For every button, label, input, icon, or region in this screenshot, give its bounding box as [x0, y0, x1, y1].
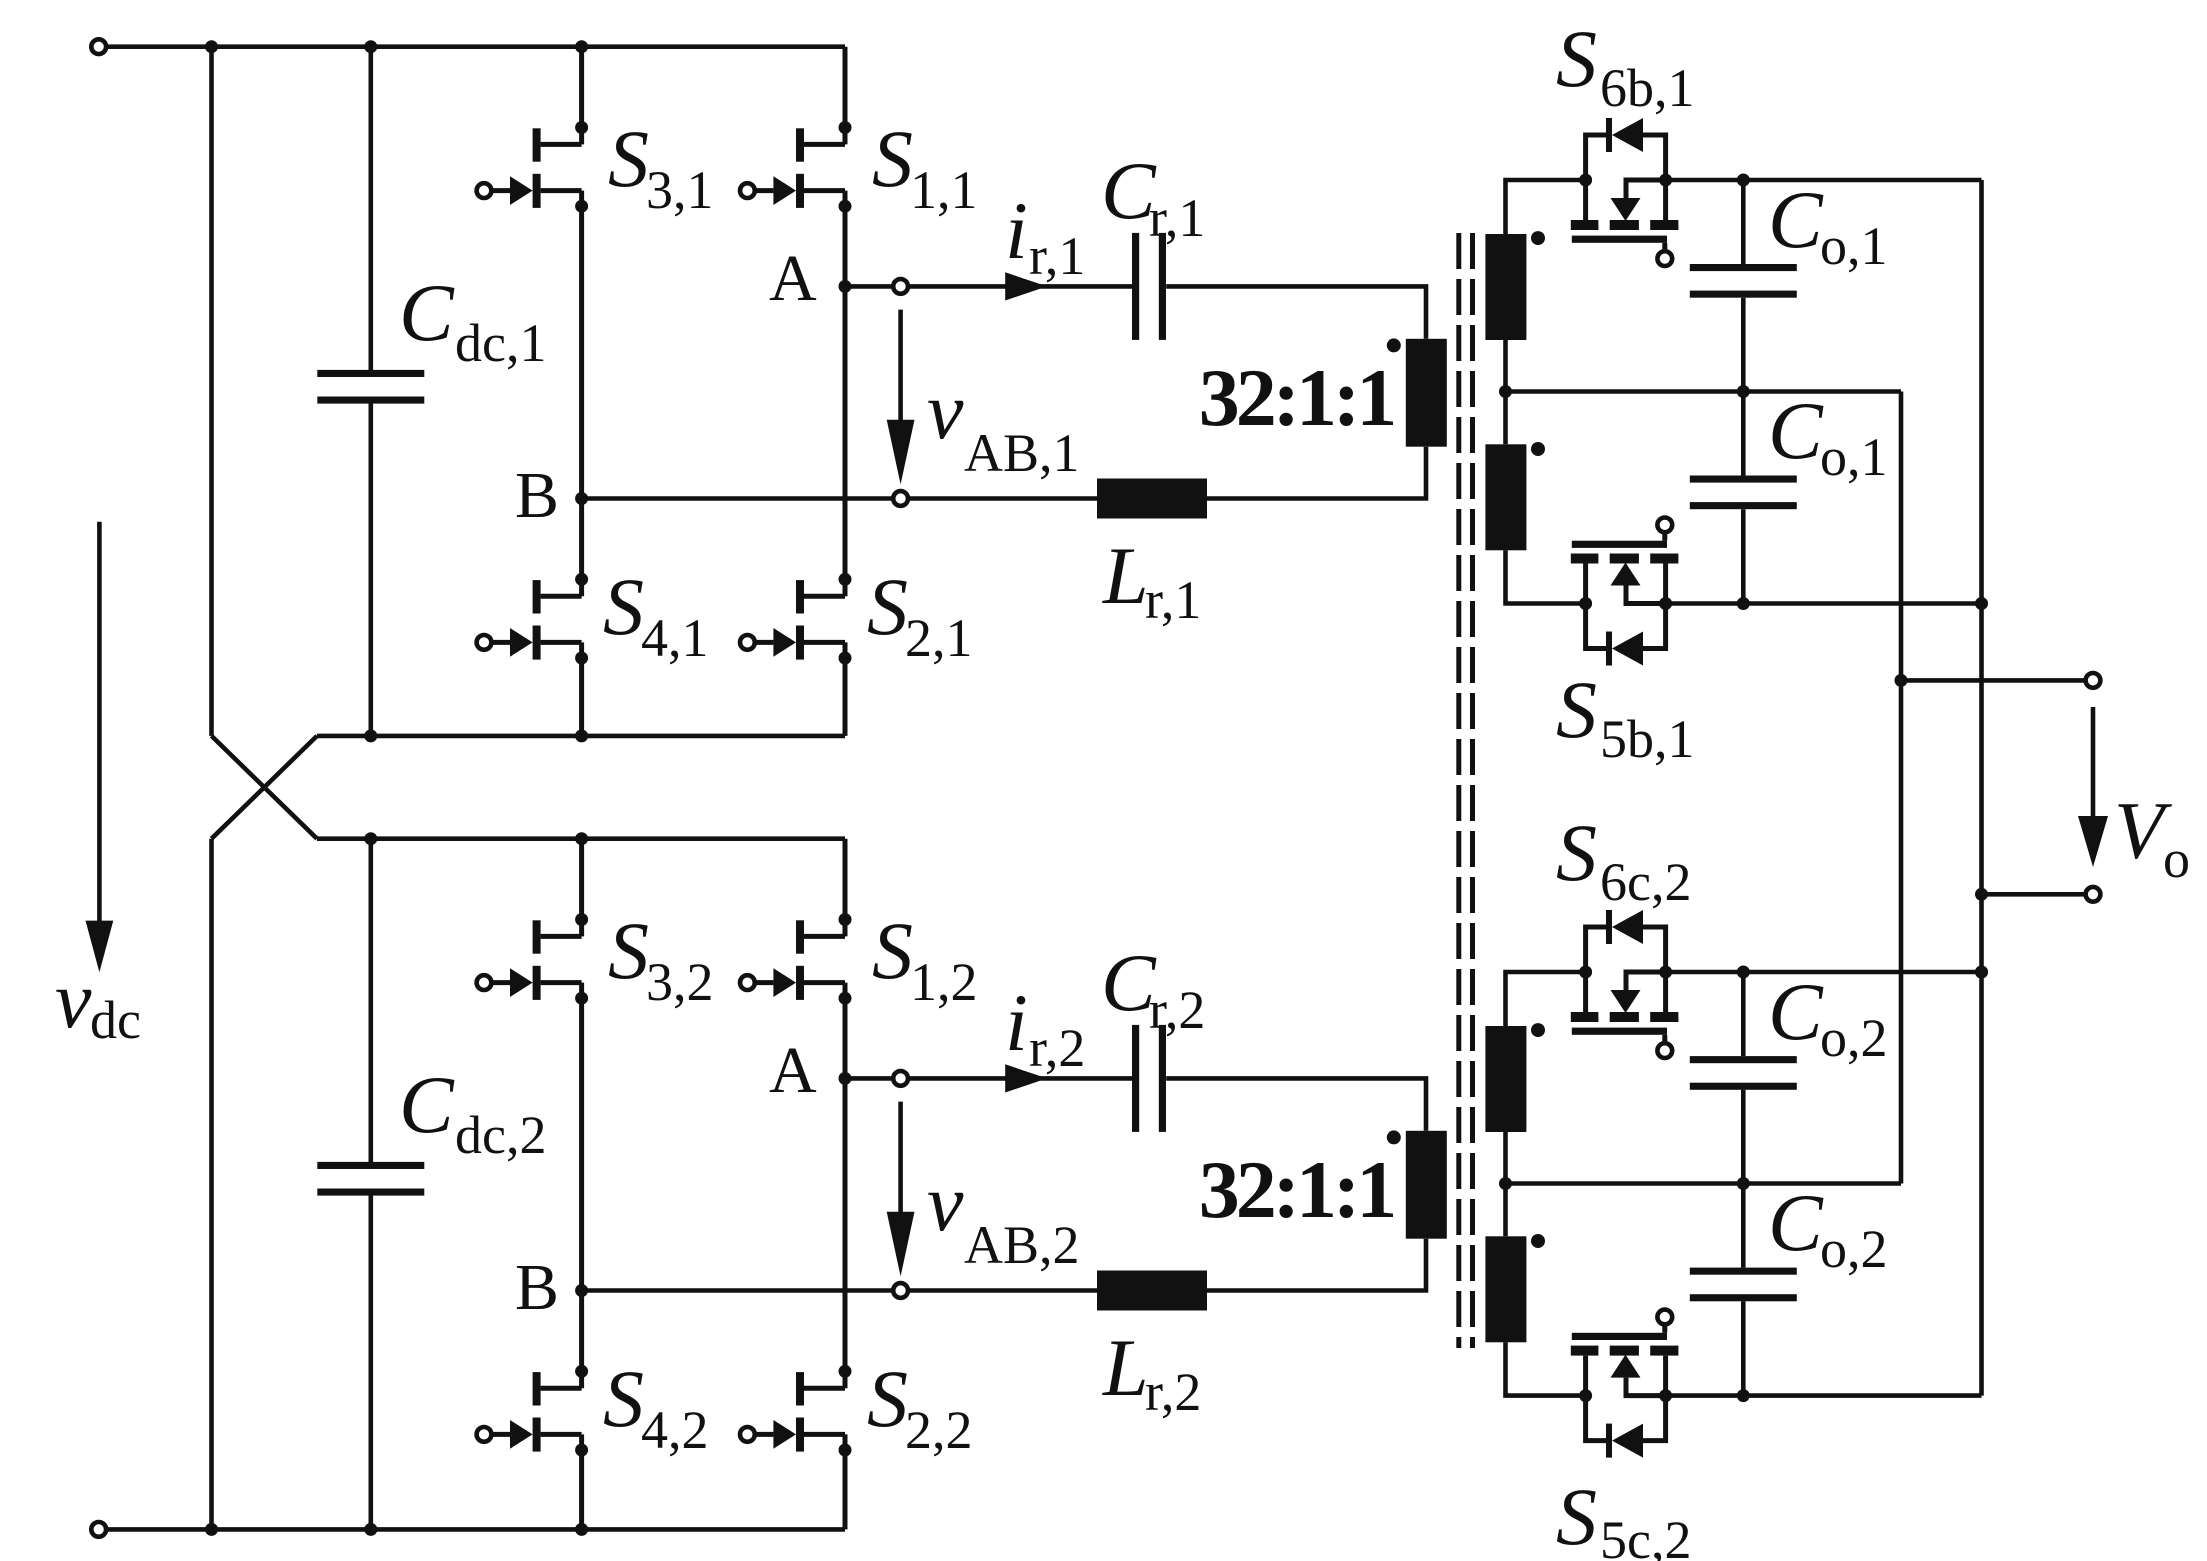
wire top input rail [108, 44, 845, 49]
node: conv2 top rail at Cdc2 [364, 832, 377, 845]
svg-text:dc: dc [90, 990, 141, 1050]
wire secondary2 bottom to rail [1506, 550, 1586, 603]
wire secondary1 top to rail [1506, 180, 1586, 234]
wire B terminal to Lr,1 [910, 496, 1097, 501]
wire secondary3-4 link [1503, 1132, 1508, 1236]
node bus A at Vo+ row [1895, 674, 1908, 687]
terminal node A [893, 279, 908, 294]
label S3,1 [608, 113, 714, 220]
label S1,2 [872, 905, 978, 1012]
label S5b,1 [1556, 664, 1695, 769]
label S6b,1 [1556, 13, 1695, 118]
transformer T1 secondary winding 1 [1485, 234, 1526, 340]
wire Cr,2 to transformer [1166, 1078, 1426, 1130]
node B1 [575, 492, 588, 505]
svg-text:o: o [2163, 829, 2190, 889]
svg-text:S: S [1556, 807, 1597, 898]
input terminal + (top left) [91, 39, 106, 54]
label v_AB,1 [927, 365, 1080, 483]
node: conv1 bottom rail at S4,1 leg [575, 729, 588, 742]
svg-text:4,2: 4,2 [641, 1400, 709, 1460]
wire node B2 to terminal [582, 1288, 892, 1293]
svg-text:S: S [867, 561, 908, 652]
wire Lr,1 to transformer [1207, 447, 1426, 499]
wire B2 terminal to Lr,2 [910, 1288, 1097, 1293]
label Cdc,1 [399, 267, 546, 373]
label Co,1 upper [1768, 174, 1888, 276]
svg-text:S: S [603, 561, 644, 652]
node A2 [839, 1072, 852, 1085]
terminal node A2 [893, 1071, 908, 1086]
arrow v_AB,1 [887, 310, 915, 485]
label B (converter 1) [515, 459, 559, 532]
label S2,2 [867, 1353, 973, 1460]
svg-text:v: v [927, 365, 964, 456]
node secondary mid junction 1 [1499, 385, 1512, 398]
label Co,1 lower [1768, 385, 1888, 487]
svg-text:2,1: 2,1 [905, 608, 973, 668]
svg-text:v: v [927, 1157, 964, 1248]
svg-text:r,1: r,1 [1149, 188, 1205, 248]
terminal node B [893, 491, 908, 506]
svg-text:C: C [1768, 1177, 1824, 1268]
svg-text:S: S [608, 113, 649, 204]
svg-text:AB,2: AB,2 [964, 1215, 1080, 1275]
wire rail1b right part [1666, 601, 1982, 606]
wire rail2b right part [1666, 1393, 1982, 1398]
capacitor Co,1 upper [1690, 180, 1797, 392]
svg-text:r,2: r,2 [1145, 1362, 1201, 1422]
label V_o [2114, 785, 2190, 889]
label i_r,1 [1005, 185, 1085, 286]
transformer T2 secondary 4 polarity dot [1531, 1234, 1545, 1248]
node: bottom rail junction at Cdc2 [364, 1523, 377, 1536]
label Lr,2 [1102, 1322, 1201, 1422]
svg-text:S: S [1556, 13, 1597, 104]
svg-text:1,1: 1,1 [910, 160, 978, 220]
label S3,2 [608, 905, 714, 1012]
transformer T2 secondary winding 4 [1485, 1236, 1526, 1342]
node secondary mid junction 2 [1499, 1177, 1512, 1190]
svg-text:L: L [1102, 530, 1149, 621]
node B2 [575, 1284, 588, 1297]
svg-text:o,1: o,1 [1820, 427, 1888, 487]
svg-text:5b,1: 5b,1 [1600, 709, 1695, 769]
wire node B to terminal [582, 496, 892, 501]
arrow v_AB,2 [887, 1102, 915, 1277]
svg-text:o,1: o,1 [1820, 216, 1888, 276]
label Co,2 upper [1768, 966, 1888, 1068]
svg-text:o,2: o,2 [1820, 1008, 1888, 1068]
wire node A2 to terminal [845, 1076, 891, 1081]
wire A terminal to Cr,1 [910, 284, 1132, 289]
transformer T2 primary winding [1406, 1131, 1447, 1239]
node: top rail junction x=211 [205, 40, 218, 53]
transformer T2 secondary winding 3 [1485, 1026, 1526, 1132]
transistor S5c,2 [1571, 1310, 1679, 1458]
wire Cr,1 to transformer [1166, 286, 1426, 338]
capacitor Cdc,2 [317, 839, 424, 1530]
label 32:1:1 (T1) [1199, 352, 1394, 443]
wire Vo+ terminal row [1901, 678, 2084, 683]
transformer T1 secondary 1 polarity dot [1531, 231, 1545, 245]
terminal Vo+ [2086, 673, 2101, 688]
wire left vertical upper section [209, 47, 214, 736]
node: bottom rail junction at S4,2 leg [575, 1523, 588, 1536]
wire converter1 bottom rail [317, 734, 845, 739]
label B (converter 2) [515, 1251, 559, 1324]
wire output bus A (mid rails) [1899, 392, 1904, 1184]
wire converter2 top rail [317, 836, 845, 841]
arrow V_o [2078, 707, 2108, 867]
svg-text:i: i [1005, 185, 1028, 276]
svg-text:C: C [399, 1059, 455, 1150]
capacitor Co,2 lower [1690, 1184, 1797, 1396]
svg-text:o,2: o,2 [1820, 1219, 1888, 1279]
wire crossover diagonal converter1 bottom to input- [212, 736, 318, 839]
node rail2a at Co,2 [1737, 966, 1750, 979]
label S5c,2 [1556, 1471, 1691, 1561]
svg-text:4,1: 4,1 [641, 608, 709, 668]
node rail1m at Co,1 [1737, 385, 1750, 398]
transistor S3,2 [477, 839, 588, 1291]
wire bottom input rail [108, 1527, 845, 1532]
wire Lr,2 to transformer [1207, 1239, 1426, 1291]
svg-text:3,2: 3,2 [646, 952, 714, 1012]
svg-text:S: S [1556, 1471, 1597, 1561]
transistor S4,1 [477, 499, 588, 736]
node: bottom rail junction x=211 [205, 1523, 218, 1536]
node rail2b at Co,2 [1737, 1389, 1750, 1402]
transformer T1 primary polarity dot [1387, 338, 1401, 352]
transistor S6b,1 [1571, 118, 1679, 266]
svg-text:dc,2: dc,2 [455, 1105, 546, 1165]
svg-text:r,1: r,1 [1145, 570, 1201, 630]
transformer core (shared, dashed) [1459, 233, 1473, 1348]
label S4,2 [603, 1353, 709, 1460]
transistor S1,2 [740, 839, 852, 1079]
wire secondary3 top to rail [1506, 972, 1586, 1026]
transformer T1 primary winding [1406, 339, 1447, 447]
node rail1a at Co,1 [1737, 174, 1750, 187]
transistor S3,1 [477, 47, 588, 499]
label v_dc [55, 954, 141, 1050]
label Co,2 lower [1768, 1177, 1888, 1279]
terminal Vo- [2086, 887, 2101, 902]
transistor S5b,1 [1571, 518, 1679, 666]
label Lr,1 [1102, 530, 1201, 630]
label S6c,2 [1556, 807, 1691, 912]
input terminal - (bottom left) [91, 1522, 106, 1537]
svg-text:5c,2: 5c,2 [1600, 1510, 1691, 1561]
label S4,1 [603, 561, 709, 668]
label Cdc,2 [399, 1059, 546, 1165]
wire rail1a right part [1666, 178, 1982, 183]
svg-text:r,2: r,2 [1149, 980, 1205, 1040]
svg-text:S: S [1556, 664, 1597, 755]
svg-text:S: S [872, 905, 913, 996]
svg-text:v: v [55, 954, 92, 1045]
inductor Lr,2 [1097, 1271, 1207, 1311]
svg-text:32:1:1: 32:1:1 [1199, 1144, 1394, 1235]
label 32:1:1 (T2) [1199, 1144, 1394, 1235]
wire rail2m mid rail [1506, 1181, 1902, 1186]
arrow v_dc [86, 522, 114, 972]
capacitor Cdc,1 [317, 47, 424, 736]
svg-text:S: S [872, 113, 913, 204]
svg-text:i: i [1005, 977, 1028, 1068]
node: conv1 bottom rail at Cdc1 [364, 729, 377, 742]
svg-text:r,2: r,2 [1029, 1018, 1085, 1078]
inductor Lr,1 [1097, 479, 1207, 519]
node: top rail junction at S3,1 leg [575, 40, 588, 53]
node rail2a at bus2 [1975, 966, 1988, 979]
svg-text:C: C [1768, 966, 1824, 1057]
transformer T2 secondary 3 polarity dot [1531, 1023, 1545, 1037]
terminal node B2 [893, 1283, 908, 1298]
svg-text:L: L [1102, 1322, 1149, 1413]
svg-text:AB,1: AB,1 [964, 423, 1080, 483]
wire rail1m mid rail [1506, 389, 1902, 394]
node rail1b at Co,1 [1737, 597, 1750, 610]
capacitor Co,1 lower [1690, 392, 1797, 604]
transistor S2,1 [740, 286, 852, 736]
transformer T1 secondary winding 2 [1485, 444, 1526, 550]
label S2,1 [867, 561, 973, 668]
node rail2m at Co,2 [1737, 1177, 1750, 1190]
svg-text:C: C [1768, 385, 1824, 476]
capacitor Co,2 upper [1690, 972, 1797, 1184]
svg-text:C: C [399, 267, 455, 358]
label A (converter 2) [769, 1034, 817, 1107]
node: conv2 top rail at S3,2 leg [575, 832, 588, 845]
wire A2 terminal to Cr,2 [910, 1076, 1132, 1081]
node bus B at rail2a [1975, 966, 1988, 979]
node bus B at Vo- row [1975, 888, 1988, 901]
svg-text:6c,2: 6c,2 [1600, 852, 1691, 912]
wire rail2a right part [1666, 970, 1982, 975]
svg-text:S: S [867, 1353, 908, 1444]
transistor S6c,2 [1571, 910, 1679, 1058]
svg-text:A: A [769, 1034, 817, 1107]
transistor S2,2 [740, 1078, 852, 1529]
transistor S4,2 [477, 1291, 588, 1530]
svg-text:S: S [603, 1353, 644, 1444]
svg-text:3,1: 3,1 [646, 160, 714, 220]
label Cr,2 [1101, 937, 1205, 1040]
node A1 [839, 280, 852, 293]
svg-text:C: C [1768, 174, 1824, 265]
arrow i_r,1 [1005, 272, 1047, 300]
node rail1b at bus2 [1975, 597, 1988, 610]
wire output bus B [1979, 180, 1984, 1396]
svg-text:S: S [608, 905, 649, 996]
transistor S1,1 [740, 47, 852, 287]
transformer T2 primary polarity dot [1387, 1130, 1401, 1144]
label v_AB,2 [927, 1157, 1080, 1275]
label Cr,1 [1101, 145, 1205, 248]
label A (converter 1) [769, 242, 817, 315]
wire node A to terminal [845, 284, 891, 289]
svg-text:B: B [515, 459, 559, 532]
svg-text:6b,1: 6b,1 [1600, 58, 1695, 118]
transformer T1 secondary 2 polarity dot [1531, 442, 1545, 456]
label S1,1 [872, 113, 978, 220]
svg-text:A: A [769, 242, 817, 315]
svg-text:1,2: 1,2 [910, 952, 978, 1012]
wire secondary4 bottom to rail [1506, 1342, 1586, 1395]
wire secondary inter-winding link [1503, 340, 1508, 444]
svg-text:dc,1: dc,1 [455, 313, 546, 373]
wire crossover diagonal input+ to converter2 [212, 736, 318, 839]
wire Vo- terminal row [1982, 892, 2084, 897]
wire left vertical lower section [209, 839, 214, 1530]
svg-text:32:1:1: 32:1:1 [1199, 352, 1394, 443]
svg-text:2,2: 2,2 [905, 1400, 973, 1460]
svg-text:r,1: r,1 [1029, 226, 1085, 286]
arrow i_r,2 [1005, 1064, 1047, 1092]
capacitor Cr,1 [1132, 233, 1166, 340]
label i_r,2 [1005, 977, 1085, 1078]
node: top rail junction at Cdc1 [364, 40, 377, 53]
svg-text:B: B [515, 1251, 559, 1324]
capacitor Cr,2 [1132, 1025, 1166, 1132]
